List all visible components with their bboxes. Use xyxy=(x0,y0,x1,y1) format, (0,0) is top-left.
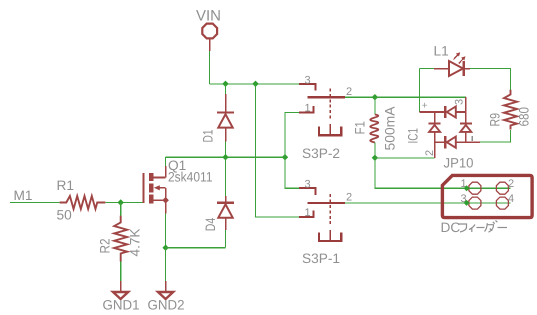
svg-text:50: 50 xyxy=(57,208,73,223)
fuse F1 xyxy=(370,115,378,143)
wire D4 bottom lead xyxy=(225,230,227,248)
junction on VIN rail at S3P-1 branch xyxy=(252,81,258,87)
svg-text:2: 2 xyxy=(346,192,352,204)
label DC feeder text xyxy=(441,220,508,235)
svg-text:2sk4011: 2sk4011 xyxy=(168,170,213,185)
svg-text:D4: D4 xyxy=(203,218,218,232)
ground GND1 xyxy=(113,281,128,299)
switch S3P-1 xyxy=(299,188,345,241)
wire D1 top lead xyxy=(225,84,227,94)
bridge rectifier IC1 xyxy=(420,97,480,158)
svg-text:L1: L1 xyxy=(434,44,449,59)
svg-text:3: 3 xyxy=(305,179,311,191)
svg-text:M1: M1 xyxy=(14,188,33,203)
svg-text:1: 1 xyxy=(305,103,311,115)
wire to JP10 pin 1 xyxy=(375,158,511,188)
supply pin VIN xyxy=(202,24,217,51)
svg-text:2: 2 xyxy=(508,178,514,190)
svg-text:2: 2 xyxy=(346,86,352,98)
svg-text:IC1: IC1 xyxy=(406,128,421,144)
connector JP10 outline xyxy=(442,175,532,217)
wire M1 input xyxy=(10,202,60,204)
wire R2 top lead xyxy=(120,203,122,216)
wire F1 top lead xyxy=(374,97,376,114)
wire S3P-1 pin2 to JP10 pin3 xyxy=(345,202,511,204)
wire D1 bottom lead xyxy=(225,142,227,158)
wire VIN rail to S3P-1 pin 1 xyxy=(256,84,300,217)
resistor R2 xyxy=(114,216,127,262)
junction JP10 pin 1 xyxy=(464,185,470,191)
wire drain rail xyxy=(166,156,285,158)
pad JP10-3 xyxy=(469,197,481,209)
junction F1 bottom xyxy=(372,155,378,161)
svg-text:3: 3 xyxy=(454,99,466,105)
svg-text:S3P-1: S3P-1 xyxy=(302,251,340,266)
transistor Q1 xyxy=(144,166,169,214)
LED L1 xyxy=(434,52,470,76)
wire Q1 drain up xyxy=(165,157,167,166)
diode D4 xyxy=(217,196,234,230)
junction F1 top xyxy=(372,94,378,100)
wire VIN stub xyxy=(209,51,211,84)
switch S3P-2 xyxy=(299,84,345,135)
resistor R1 xyxy=(60,196,106,209)
junction source/GND2 xyxy=(162,245,168,251)
wire to S3P-1 pin 3 xyxy=(285,157,299,188)
wire L1 anode lead xyxy=(420,68,434,70)
wire F1 bottom lead xyxy=(374,143,376,158)
svg-text:1: 1 xyxy=(305,207,311,219)
svg-text:500mA: 500mA xyxy=(383,106,398,151)
svg-text:S3P-2: S3P-2 xyxy=(302,146,340,161)
wire R2 to GND1 xyxy=(120,262,122,282)
svg-text:3: 3 xyxy=(305,74,311,86)
svg-text:JP10: JP10 xyxy=(444,156,474,171)
wire AC rail to bridge pin 3 xyxy=(375,96,466,98)
wire L1 cathode to R9 xyxy=(470,69,511,90)
wire GND2 lead xyxy=(165,248,167,281)
diode D1 xyxy=(217,94,234,142)
wire to S3P-2 pin 1 xyxy=(285,113,299,158)
pad JP10-4 xyxy=(496,197,508,209)
wire R1 to gate xyxy=(105,202,143,204)
svg-text:4: 4 xyxy=(508,193,514,205)
svg-text:VIN: VIN xyxy=(196,8,221,25)
wire S3P-2 pin2 to F1 junction xyxy=(345,96,375,98)
svg-text:GND1: GND1 xyxy=(103,298,140,313)
wire F1 bottom to bridge pin 2 xyxy=(375,157,435,159)
svg-text:4.7K: 4.7K xyxy=(128,229,143,257)
svg-text:+: + xyxy=(422,100,428,111)
junction R1/R2/gate xyxy=(118,199,124,205)
wire R9 to bridge minus xyxy=(480,130,511,142)
junction on VIN rail at D1 xyxy=(222,81,228,87)
svg-text:680: 680 xyxy=(517,107,532,127)
wire Q1 source down xyxy=(165,214,167,248)
svg-text:R1: R1 xyxy=(57,178,75,193)
resistor R9 xyxy=(504,90,517,130)
wire VIN rail xyxy=(210,83,300,85)
wire D4 top lead xyxy=(225,157,227,196)
wire L1/bridge + vertical xyxy=(419,69,421,113)
svg-text:F1: F1 xyxy=(353,121,368,135)
svg-text:R9: R9 xyxy=(488,113,503,127)
junction drain rail at D1/D4 xyxy=(222,154,228,160)
junction drain rail at switch branch xyxy=(282,154,288,160)
ground GND2 xyxy=(158,281,173,299)
svg-text:R2: R2 xyxy=(98,239,113,254)
svg-text:DC: DC xyxy=(441,220,461,235)
pad JP10-2 xyxy=(496,182,508,194)
svg-text:D1: D1 xyxy=(200,130,215,143)
svg-text:GND2: GND2 xyxy=(148,298,185,313)
pad JP10-1 xyxy=(469,182,481,194)
svg-text:2: 2 xyxy=(424,150,436,156)
junction JP10 pin 3 xyxy=(464,200,470,206)
label bridge pin minus xyxy=(471,136,473,141)
wire source rail to D4 xyxy=(166,247,226,249)
